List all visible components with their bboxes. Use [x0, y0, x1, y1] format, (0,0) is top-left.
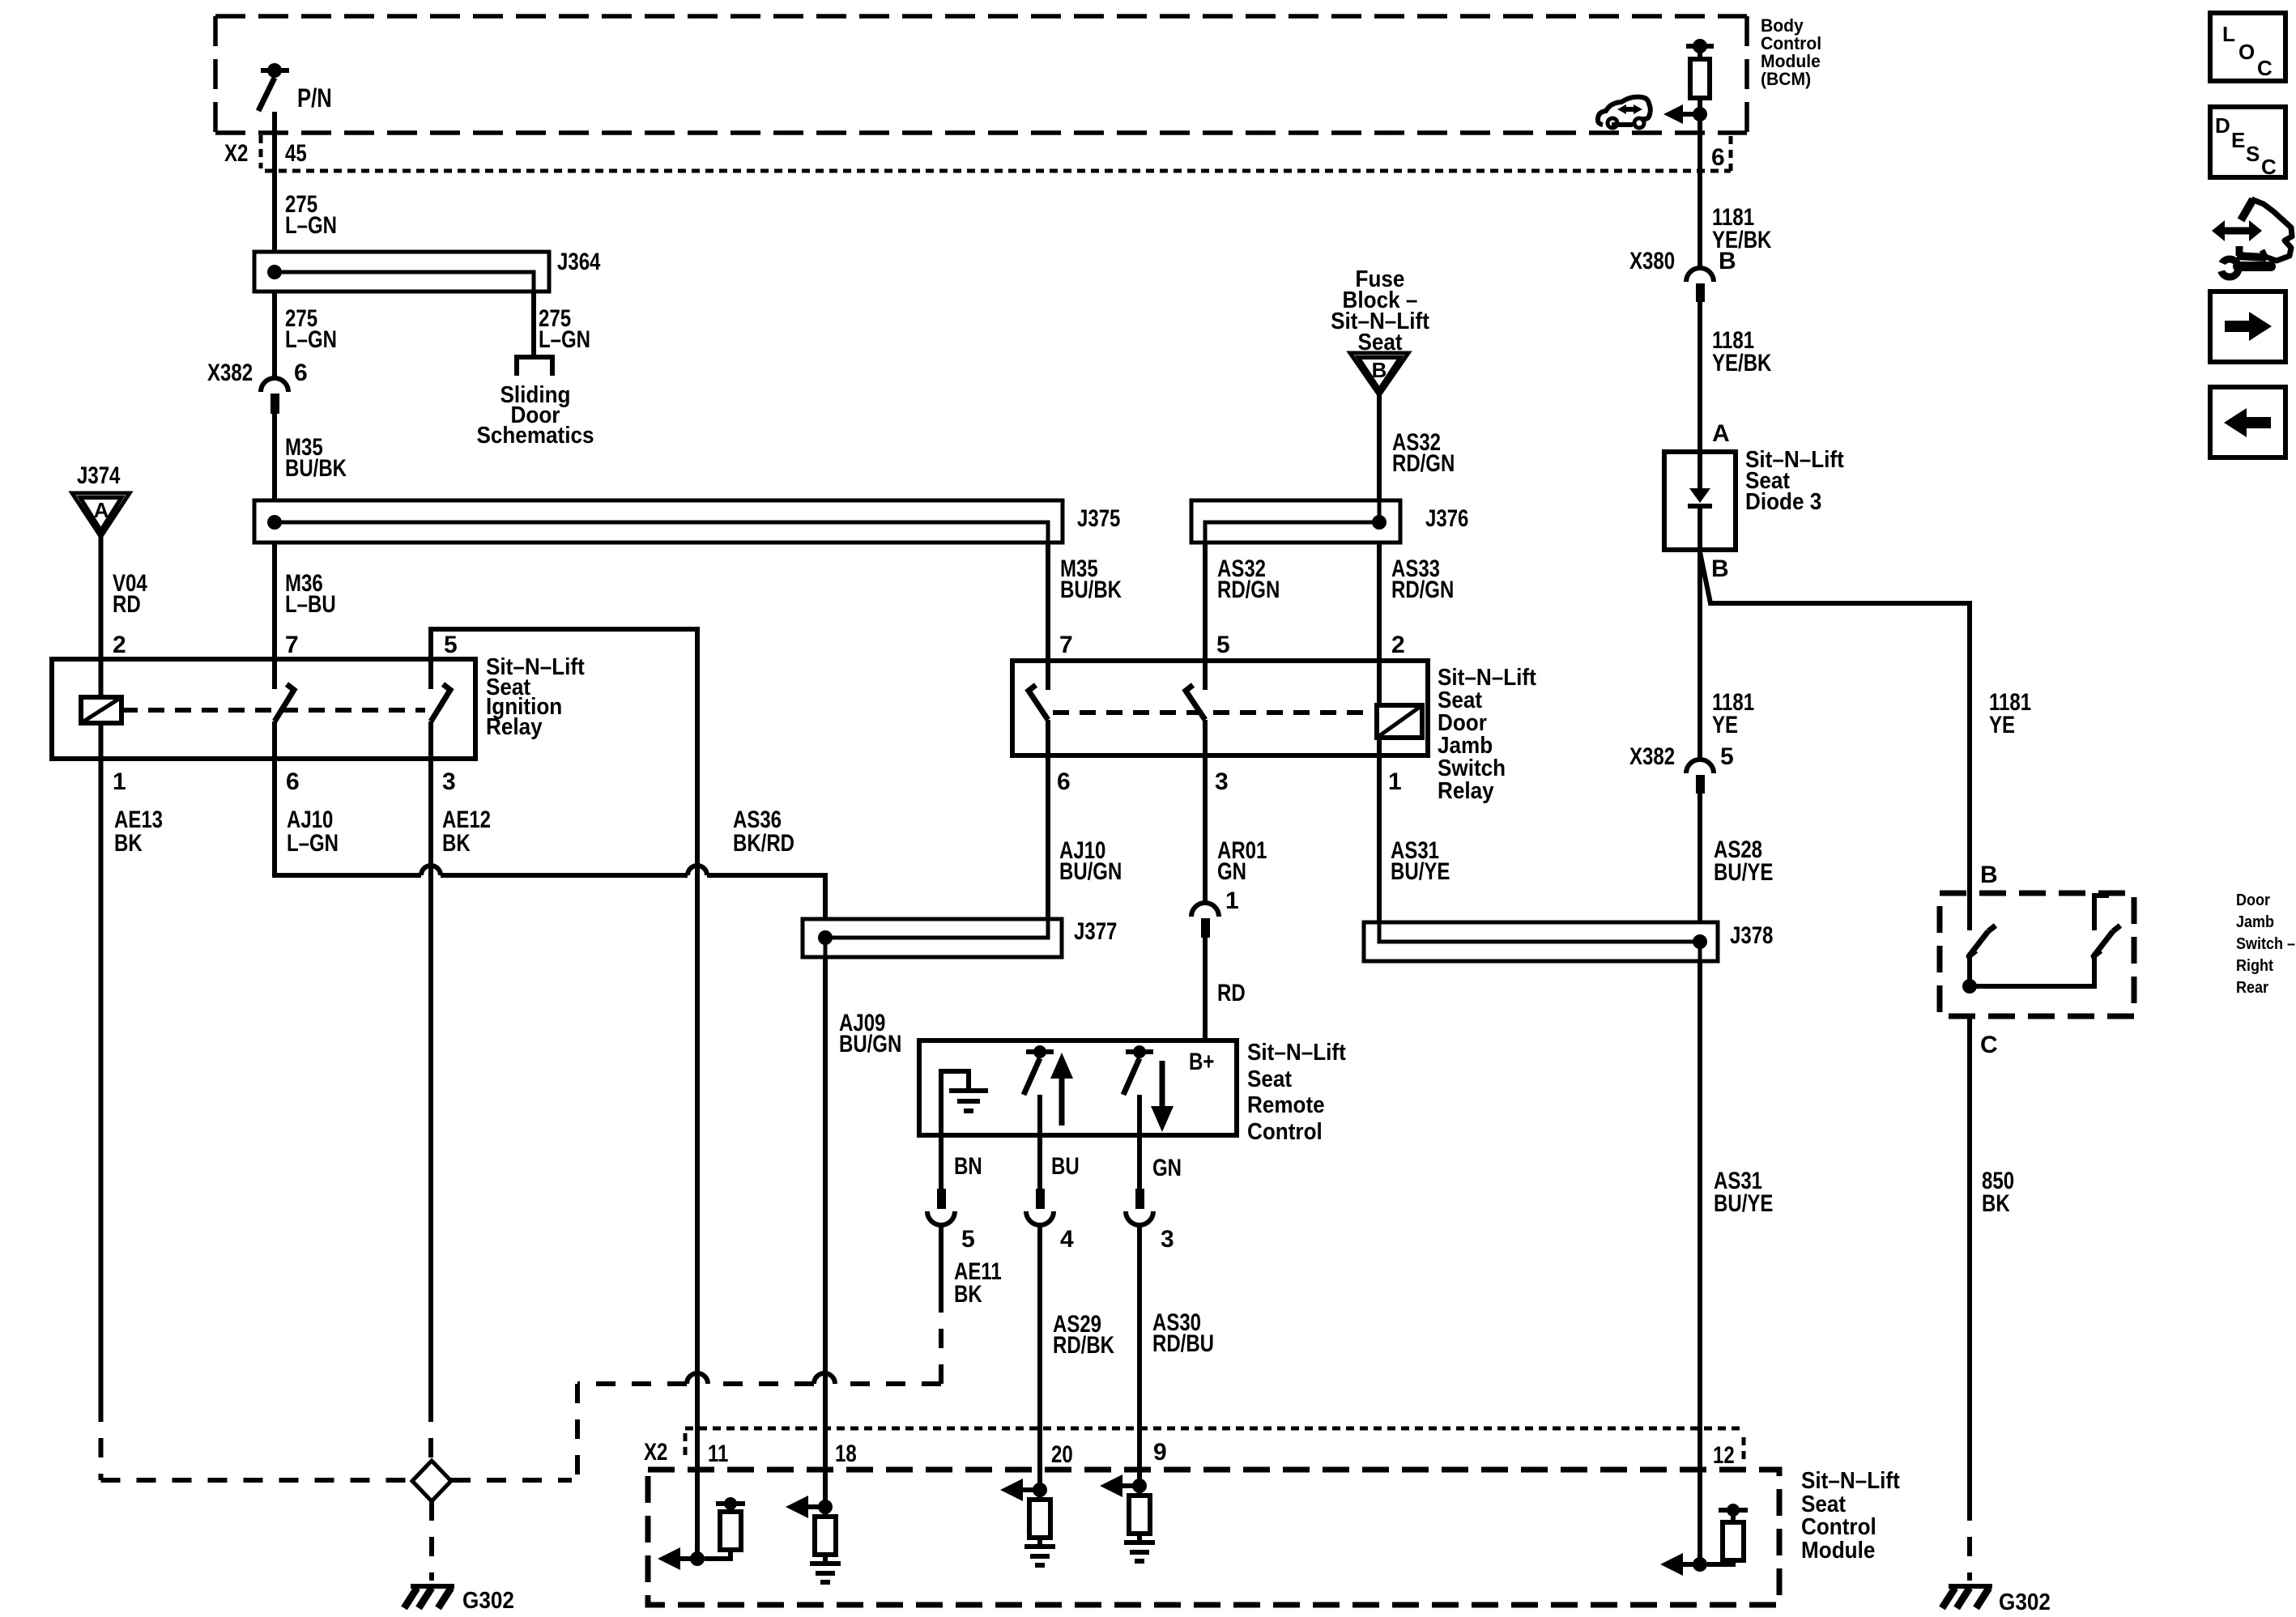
svg-text:RD/BU: RD/BU: [1152, 1330, 1214, 1357]
svg-text:1: 1: [1388, 768, 1402, 795]
wire AE12 BK from relay pin 3 down: [431, 759, 491, 1402]
svg-text:G302: G302: [462, 1588, 514, 1614]
door jamb switch contact 1: [1962, 926, 1996, 994]
wire BU from remote control: [1040, 1135, 1080, 1189]
svg-text:6: 6: [1057, 768, 1071, 795]
Fuse Block - Sit-N-Lift Seat label: [1331, 266, 1429, 355]
svg-text:Diode 3: Diode 3: [1745, 489, 1821, 515]
BCM label: [1761, 15, 1821, 89]
Sit-N-Lift Seat Diode 3 box: [1664, 447, 1844, 550]
svg-text:3: 3: [442, 768, 456, 795]
svg-text:Control: Control: [1801, 1514, 1876, 1540]
connector pin 4 below BU: [1026, 1189, 1074, 1253]
svg-text:BK/RD: BK/RD: [733, 830, 794, 857]
svg-text:4: 4: [1060, 1226, 1074, 1253]
svg-text:BU/BK: BU/BK: [285, 455, 347, 482]
svg-text:Relay: Relay: [486, 714, 543, 740]
power triangle J374 A: [72, 462, 130, 537]
wire 275 L-GN from J364 to X382: [275, 291, 337, 377]
wire AE13 BK from relay pin 1: [101, 759, 164, 1402]
svg-text:BU/YE: BU/YE: [1714, 859, 1773, 886]
svg-text:D: D: [2215, 113, 2230, 138]
svg-text:BU/BK: BU/BK: [1060, 577, 1122, 603]
svg-text:GN: GN: [1217, 858, 1246, 885]
svg-text:18: 18: [835, 1440, 857, 1467]
Sit-N-Lift Seat Remote Control box: [919, 1040, 1346, 1145]
svg-text:J377: J377: [1074, 918, 1117, 945]
dashed hop over AJ09: [814, 1373, 835, 1384]
connector pin 1 on AR01: [1191, 887, 1239, 938]
svg-text:7: 7: [1059, 632, 1073, 658]
module pin 18 resistor to ground: [810, 1517, 841, 1582]
svg-text:5: 5: [1216, 632, 1230, 658]
svg-text:J364: J364: [557, 249, 601, 275]
svg-text:BU/YE: BU/YE: [1391, 858, 1450, 885]
svg-text:B: B: [1980, 862, 1998, 888]
BCM internal node with arrow to car icon: [1663, 104, 1707, 124]
svg-text:BK: BK: [114, 830, 143, 857]
svg-text:6: 6: [286, 768, 300, 795]
right arrow icon box: [2210, 291, 2285, 362]
svg-text:L–BU: L–BU: [285, 591, 336, 618]
svg-text:L–GN: L–GN: [287, 830, 339, 857]
BCM pin 6 wire 1181 YE/BK to X380: [1700, 114, 1772, 269]
Sit-N-Lift Seat Door Jamb Switch Relay box: [1012, 661, 1536, 804]
dashed wire from diamond to left ground: [429, 1501, 434, 1581]
wire AS32 RD/GN from fuse block to J376: [1379, 395, 1455, 500]
svg-text:Switch –: Switch –: [2236, 935, 2295, 953]
wire 275 L-GN right branch to sliding door: [534, 291, 590, 357]
svg-text:RD/GN: RD/GN: [1391, 577, 1454, 603]
svg-text:45: 45: [285, 140, 307, 167]
svg-text:A: A: [94, 498, 109, 522]
wire AS32 RD/GN from J376 to jamb relay pin 5: [1205, 543, 1280, 661]
svg-text:Sit–N–Lift: Sit–N–Lift: [1247, 1040, 1346, 1066]
down arrow: [1151, 1061, 1174, 1132]
BCM internal resistor: [1686, 39, 1714, 114]
dashed continuation of AE13 to ground net: [99, 1402, 104, 1480]
module pin 20 resistor to ground: [1024, 1490, 1055, 1565]
connector pin 5 below BN: [927, 1189, 975, 1253]
svg-text:3: 3: [1161, 1226, 1174, 1253]
svg-text:YE: YE: [1989, 712, 2015, 738]
wire M35 BU/BK from X382 to J375: [275, 414, 347, 500]
svg-text:6: 6: [294, 360, 308, 386]
ground symbol inside remote control: [941, 1071, 988, 1135]
dashed ground net horizontal through diamond: [101, 1478, 573, 1483]
ground G302 left: [404, 1586, 514, 1614]
svg-text:J374: J374: [77, 462, 121, 489]
svg-text:7: 7: [285, 632, 299, 658]
svg-text:Schematics: Schematics: [476, 423, 594, 449]
svg-text:X382: X382: [207, 360, 253, 386]
svg-text:B: B: [1372, 358, 1387, 382]
ignition relay switch contact 5-3: [431, 659, 450, 759]
svg-text:Right: Right: [2236, 957, 2273, 975]
wire hop over AS36: [688, 866, 707, 875]
svg-text:(BCM): (BCM): [1761, 69, 1811, 89]
car icon: [1598, 97, 1651, 128]
branch wire from diode B to door jamb switch: [1700, 552, 2031, 930]
svg-text:5: 5: [961, 1226, 975, 1253]
Door Jamb Switch - Right Rear dashed box: [1940, 891, 2295, 1016]
svg-text:20: 20: [1051, 1441, 1073, 1468]
svg-text:2: 2: [113, 632, 126, 658]
svg-text:12: 12: [1713, 1442, 1735, 1469]
up arrow: [1050, 1053, 1073, 1126]
wire hop over AE12: [421, 866, 441, 875]
svg-text:RD: RD: [113, 591, 141, 618]
svg-text:X2: X2: [224, 140, 248, 167]
off-page bracket to sliding door schematics: [476, 357, 594, 449]
svg-text:L–GN: L–GN: [285, 326, 337, 353]
svg-text:BK: BK: [1982, 1190, 2010, 1217]
svg-text:BU/GN: BU/GN: [1059, 858, 1122, 885]
Sit-N-Lift Seat Ignition Relay box: [52, 654, 585, 759]
module pin 18 arrow node: [786, 1471, 833, 1518]
svg-text:1: 1: [1225, 887, 1239, 914]
connector pin 3 below GN: [1126, 1189, 1174, 1253]
svg-text:11: 11: [708, 1440, 728, 1467]
wire M35 BU/BK from J375 to jamb relay pin 7: [1048, 543, 1122, 661]
svg-text:Door: Door: [2236, 891, 2270, 909]
svg-text:YE/BK: YE/BK: [1712, 350, 1772, 377]
wire AJ10 BU/GN from jamb relay pin 6 to J377: [1048, 755, 1122, 919]
svg-text:RD/GN: RD/GN: [1217, 577, 1280, 603]
svg-text:O: O: [2238, 40, 2255, 64]
wire V04 RD to ignition relay pin 2: [101, 537, 147, 659]
module X2 connector row dotted boundary: [685, 1428, 1744, 1463]
diode symbol: [1688, 452, 1712, 550]
module pin 20 arrow node: [1000, 1479, 1047, 1501]
svg-text:RD: RD: [1217, 980, 1246, 1006]
svg-text:GN: GN: [1152, 1155, 1182, 1181]
splice J375: [254, 500, 1120, 543]
wire AS31 BU/YE from J378 to module pin 12: [1700, 961, 1773, 1471]
svg-text:B: B: [1719, 248, 1736, 274]
svg-text:C: C: [2257, 56, 2273, 80]
svg-text:Rear: Rear: [2236, 979, 2268, 997]
svg-text:6: 6: [1711, 144, 1725, 171]
svg-text:5: 5: [1720, 743, 1734, 770]
pin labels X2 45: [224, 140, 307, 167]
svg-text:BN: BN: [954, 1153, 982, 1180]
module pin 9 arrow node: [1100, 1474, 1147, 1497]
wire AJ10 L-GN from relay pin 6 over to J377: [275, 759, 825, 919]
remote control down switch: [1123, 1045, 1153, 1135]
svg-text:Relay: Relay: [1438, 778, 1494, 804]
wire 275 L-GN from P/N to J364: [275, 112, 337, 252]
svg-text:9: 9: [1153, 1439, 1167, 1466]
wire AE11 BK below connector: [941, 1225, 1002, 1308]
wire AS28 BU/YE from X382 to J378: [1700, 794, 1773, 922]
svg-text:S: S: [2246, 142, 2260, 166]
service icon double arrow: [2212, 220, 2262, 241]
wire AS30 RD/BU to module pin 9: [1139, 1225, 1214, 1484]
dashed wire to right ground: [1967, 1501, 1972, 1581]
svg-text:BK: BK: [954, 1281, 982, 1308]
module pin 12 resistor: [1707, 1504, 1748, 1564]
service icon loop arrow: [2237, 199, 2292, 261]
BCM X2 connector row dotted boundary: [261, 135, 1731, 171]
LOC icon box: [2210, 13, 2285, 81]
wire AJ09 BU/GN from J377 down to module pin 18: [825, 957, 901, 1471]
wire AS33 RD/GN from J376 to jamb relay pin 2: [1379, 543, 1454, 661]
dashed AE11 ground net path: [577, 1293, 941, 1480]
svg-text:BK: BK: [442, 830, 471, 857]
power triangle B fuse block: [1350, 353, 1408, 395]
wire AS36 BK/RD from relay pin 5 up and over: [431, 629, 794, 1471]
svg-text:RD/GN: RD/GN: [1392, 450, 1455, 477]
svg-text:B+: B+: [1189, 1049, 1214, 1075]
module pin 11 arrow node: [658, 1471, 705, 1570]
svg-text:Remote: Remote: [1247, 1092, 1325, 1118]
svg-text:C: C: [1980, 1032, 1998, 1058]
Body Control Module (BCM) dashed box: [215, 16, 1747, 133]
jamb relay actuating dashed line: [1053, 710, 1372, 715]
svg-text:Seat: Seat: [1247, 1066, 1292, 1092]
dashed hop over AS36: [687, 1373, 708, 1384]
svg-text:A: A: [1712, 420, 1730, 447]
svg-text:L–GN: L–GN: [539, 326, 590, 353]
svg-text:C: C: [2261, 155, 2277, 179]
Sit-N-Lift Seat Control Module dashed box: [648, 1468, 1900, 1605]
jamb relay switch contact 7-6: [1029, 661, 1048, 755]
ignition relay actuating dashed line: [121, 708, 425, 713]
wire AS31 BU/YE from jamb relay pin 1 to J378: [1379, 755, 1450, 922]
svg-text:X382: X382: [1629, 743, 1675, 770]
wire 1181 YE down to X382 pin 5: [1700, 550, 1754, 761]
svg-text:L: L: [2222, 22, 2235, 46]
module pin 11 resistor: [705, 1497, 745, 1559]
door jamb switch contact 2 with stub: [1970, 896, 2120, 986]
svg-text:Sit–N–Lift: Sit–N–Lift: [1801, 1468, 1900, 1494]
svg-text:J376: J376: [1425, 505, 1468, 532]
svg-text:G302: G302: [1999, 1589, 2051, 1615]
svg-text:X380: X380: [1629, 248, 1675, 274]
remote control up switch: [1024, 1045, 1054, 1135]
diamond splice on ground net: [412, 1461, 451, 1501]
svg-text:P/N: P/N: [297, 83, 332, 113]
module pin 12 arrow node: [1660, 1471, 1707, 1576]
ignition relay coil: [81, 659, 121, 759]
svg-text:J375: J375: [1077, 505, 1120, 532]
module connector pin labels: [644, 1439, 1735, 1469]
svg-text:B: B: [1711, 555, 1729, 582]
connector X382 pin 5: [1629, 743, 1734, 794]
svg-text:Control: Control: [1247, 1119, 1323, 1145]
svg-text:L–GN: L–GN: [285, 212, 337, 239]
wire BN from remote control: [941, 1135, 982, 1189]
P/N switch inside BCM: [258, 63, 332, 113]
splice J364: [254, 249, 601, 291]
wire RD from connector to remote control B+: [1205, 938, 1246, 1040]
module pin 9 resistor to ground: [1124, 1486, 1155, 1561]
svg-text:BU: BU: [1051, 1153, 1080, 1180]
wire 850 BK from door jamb switch C: [1970, 1016, 2014, 1501]
svg-text:BU/GN: BU/GN: [839, 1031, 901, 1057]
svg-text:5: 5: [444, 632, 458, 658]
wire M36 L-BU from J375 to ignition relay pin 7: [275, 543, 336, 659]
svg-text:RD/BK: RD/BK: [1053, 1332, 1114, 1359]
svg-text:Module: Module: [1801, 1538, 1875, 1564]
jamb relay switch contact 5-3: [1186, 661, 1205, 755]
splice J376: [1191, 500, 1468, 543]
splice J378: [1364, 922, 1773, 961]
svg-text:BU/YE: BU/YE: [1714, 1190, 1773, 1217]
ground G302 right: [1942, 1586, 2051, 1615]
DESC icon box: [2210, 107, 2285, 179]
connector X380 pin B: [1629, 248, 1736, 302]
svg-text:1: 1: [113, 768, 126, 795]
svg-text:J378: J378: [1730, 922, 1773, 949]
service icon wrench: [2215, 259, 2271, 277]
svg-text:2: 2: [1391, 632, 1405, 658]
wire 1181 YE/BK from X380 to diode: [1700, 301, 1772, 452]
svg-text:Jamb: Jamb: [2236, 913, 2274, 931]
connector X382 pin 6: [207, 360, 308, 414]
wire AS29 RD/BK to module pin 20: [1040, 1225, 1114, 1488]
ignition relay switch contact 7-6: [275, 659, 294, 759]
svg-text:3: 3: [1215, 768, 1229, 795]
jamb relay coil: [1377, 661, 1422, 755]
svg-text:YE: YE: [1712, 712, 1738, 738]
left arrow icon box: [2210, 387, 2285, 457]
dashed continuation of AE12 to diamond splice: [428, 1402, 433, 1459]
wire AR01 GN from jamb relay pin 3: [1205, 755, 1267, 904]
wire GN from remote control: [1139, 1135, 1182, 1189]
svg-text:E: E: [2231, 128, 2245, 152]
splice J377: [803, 918, 1117, 957]
svg-text:X2: X2: [644, 1439, 667, 1466]
